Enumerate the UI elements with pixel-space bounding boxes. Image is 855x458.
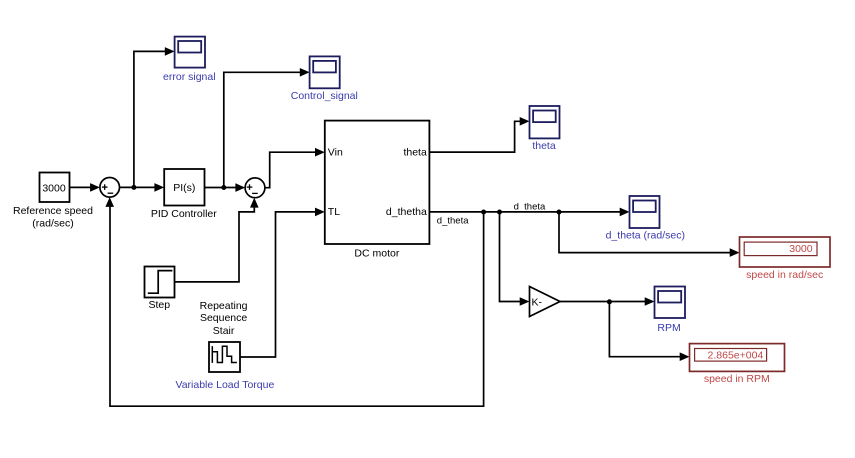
svg-text:d_theta (rad/sec): d_theta (rad/sec): [606, 229, 685, 241]
scope: error signal: [175, 37, 205, 68]
svg-text:speed in RPM: speed in RPM: [704, 373, 770, 385]
svg-text:TL: TL: [328, 206, 340, 218]
junction node: control branch: [221, 185, 226, 190]
label: Reference speed (rad/sec): [13, 205, 93, 229]
wire: feedback loop to sum1 bottom: [105, 197, 483, 406]
wire: PID controller to sum2: [205, 183, 246, 192]
junction node: error branch: [131, 185, 136, 190]
svg-text:Repeating: Repeating: [200, 300, 248, 312]
svg-text:PID Controller: PID Controller: [151, 208, 217, 220]
scope: Control_signal: [310, 56, 340, 88]
svg-text:(rad/sec): (rad/sec): [32, 217, 73, 229]
svg-text:d_thetha: d_thetha: [386, 206, 427, 218]
svg-text:Control_signal: Control_signal: [291, 90, 358, 102]
repeating sequence stair block: [209, 342, 240, 372]
svg-text:Vin: Vin: [328, 146, 343, 158]
constant block 3000 (Reference speed): [40, 173, 70, 203]
svg-text:d_theta: d_theta: [437, 215, 469, 226]
svg-text:Sequence: Sequence: [200, 312, 247, 324]
wire: gain to RPM scope: [560, 297, 655, 306]
junction node: feedback branch: [481, 210, 486, 215]
wire: sum2 to DC motor Vin: [265, 148, 325, 188]
wire: gain branch down to gain K-: [500, 212, 530, 306]
svg-text:Step: Step: [148, 299, 170, 311]
PID controller block PI(s): [164, 169, 204, 206]
display: speed in RPM: [690, 344, 785, 372]
gain block K-: [530, 287, 561, 317]
wire: error branch up to error signal scope: [134, 47, 175, 187]
wire: sum1 to PID controller: [120, 183, 165, 192]
wire: step to sum2 bottom: [175, 198, 259, 282]
scope: d_theta (rad/sec): [630, 196, 660, 228]
junction node: gain branch: [497, 210, 502, 215]
wire: stair to DC motor TL: [240, 208, 325, 357]
sum junction S1: [100, 178, 120, 198]
label: Repeating Sequence Stair: [200, 300, 248, 337]
wire: display2 branch to speed in RPM display: [609, 302, 689, 361]
sum junction S2: [245, 178, 265, 198]
svg-text:PI(s): PI(s): [173, 182, 195, 194]
svg-text:Reference speed: Reference speed: [13, 205, 93, 217]
svg-text:DC motor: DC motor: [354, 248, 399, 260]
svg-text:K-: K-: [532, 296, 543, 308]
junction node: display1 branch: [557, 210, 562, 215]
svg-text:Stair: Stair: [213, 325, 235, 337]
wire: control branch up to Control_signal scope: [224, 68, 310, 188]
scope: theta: [530, 106, 560, 138]
wire: DC motor d_thetha to d_theta scope: [429, 208, 629, 217]
svg-text:RPM: RPM: [657, 322, 680, 334]
wire: constant to sum1: [70, 183, 100, 192]
svg-text:3000: 3000: [789, 243, 813, 255]
svg-text:d_theta: d_theta: [514, 202, 546, 213]
step source block: [145, 267, 175, 298]
junction node: display2 branch: [607, 299, 612, 304]
wire: display1 branch to speed in rad/sec display: [559, 212, 740, 257]
DC motor subsystem block: [325, 121, 430, 244]
svg-text:theta: theta: [532, 140, 556, 152]
svg-text:2.865e+004: 2.865e+004: [708, 350, 764, 362]
display: speed in rad/sec: [740, 237, 831, 267]
svg-text:Variable Load Torque: Variable Load Torque: [175, 379, 274, 391]
svg-text:speed in rad/sec: speed in rad/sec: [746, 269, 823, 281]
wire: DC motor theta to theta scope: [429, 117, 529, 152]
svg-text:theta: theta: [403, 146, 427, 158]
scope: RPM: [655, 287, 686, 319]
svg-text:error signal: error signal: [163, 71, 216, 83]
svg-text:3000: 3000: [42, 182, 66, 194]
